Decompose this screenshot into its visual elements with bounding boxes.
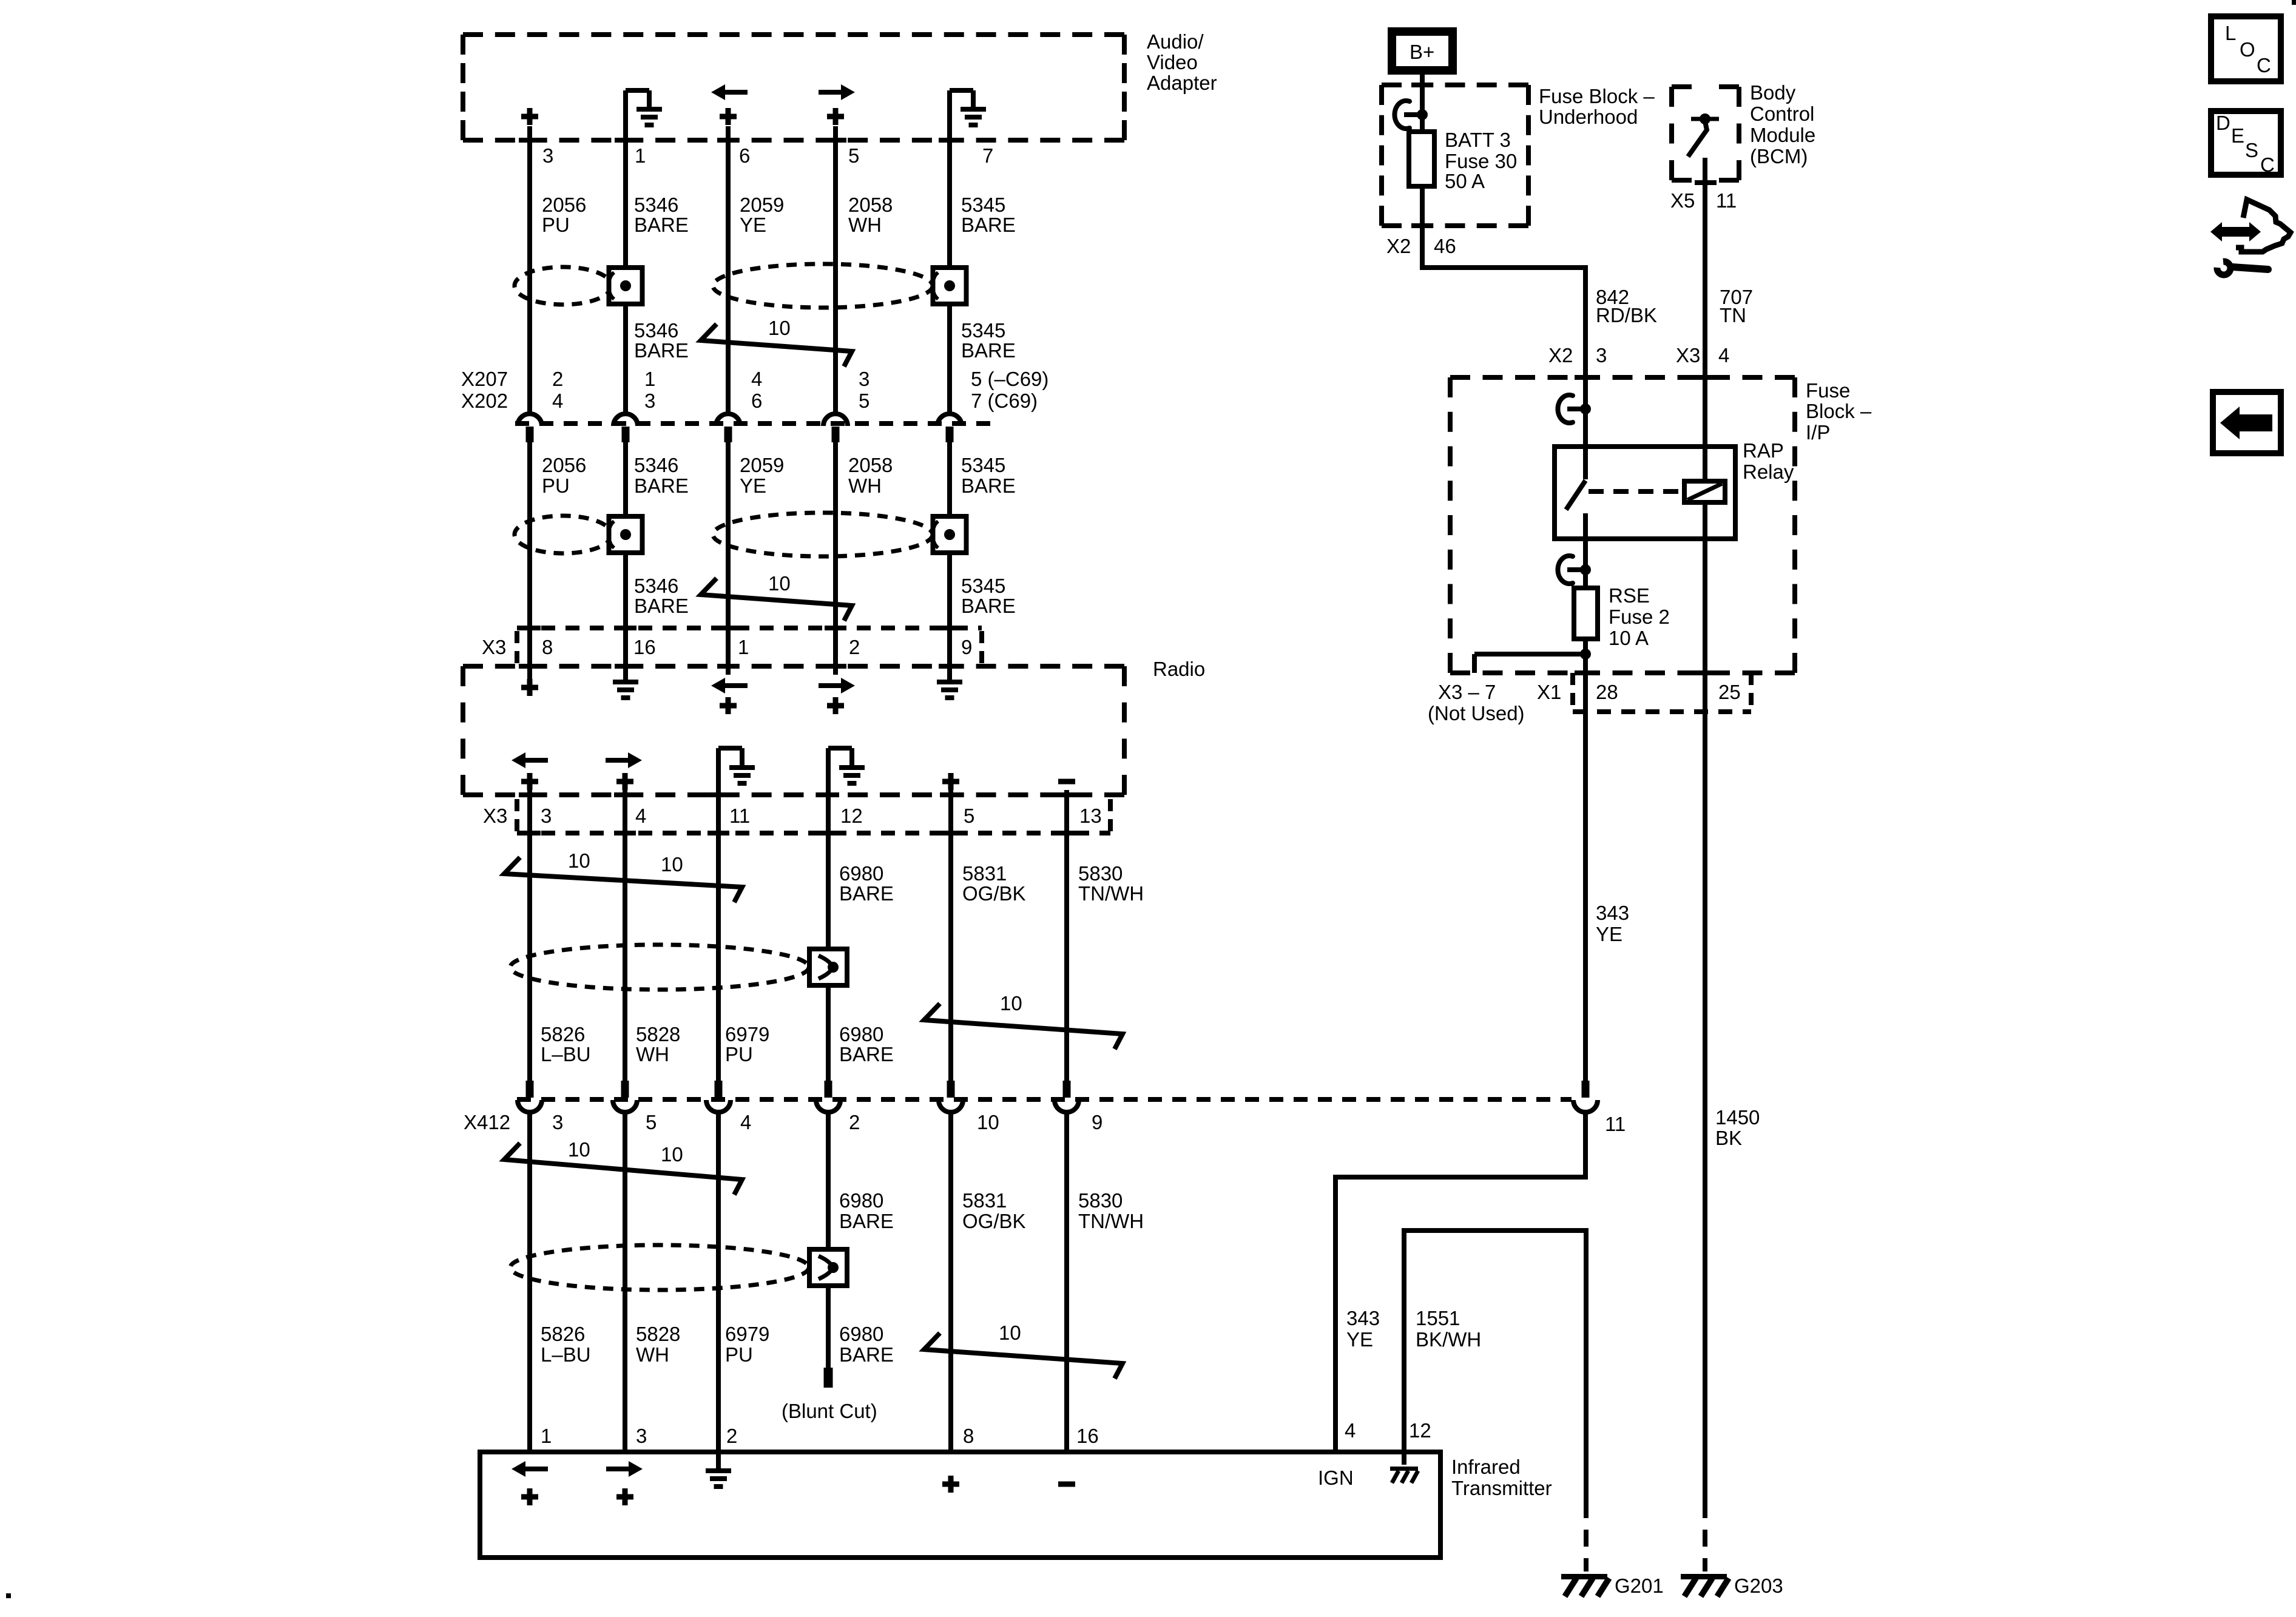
- svg-text:Radio: Radio: [1153, 658, 1205, 680]
- svg-text:TN: TN: [1720, 304, 1746, 326]
- svg-text:3: 3: [644, 390, 655, 412]
- svg-text:X5: X5: [1670, 189, 1695, 212]
- svg-text:6980: 6980: [839, 862, 883, 885]
- svg-text:7: 7: [982, 144, 993, 167]
- svg-text:50 A: 50 A: [1445, 170, 1485, 192]
- svg-text:10: 10: [568, 1138, 590, 1161]
- svg-text:6980: 6980: [839, 1023, 883, 1045]
- svg-text:X3: X3: [1676, 344, 1700, 366]
- svg-text:X1: X1: [1537, 681, 1561, 703]
- svg-text:10: 10: [999, 1322, 1021, 1344]
- svg-text:IGN: IGN: [1318, 1467, 1354, 1489]
- svg-text:10: 10: [1000, 992, 1022, 1014]
- svg-text:G203: G203: [1734, 1575, 1783, 1597]
- svg-text:6979: 6979: [725, 1023, 769, 1045]
- svg-text:5346: 5346: [634, 319, 678, 342]
- svg-text:5: 5: [964, 805, 974, 827]
- svg-text:Fuse 2: Fuse 2: [1609, 606, 1670, 628]
- svg-text:BARE: BARE: [634, 214, 689, 236]
- svg-text:3: 3: [859, 368, 869, 390]
- svg-text:7 (C69): 7 (C69): [971, 390, 1038, 412]
- svg-text:D: D: [2216, 112, 2230, 134]
- svg-text:1551: 1551: [1416, 1307, 1460, 1329]
- svg-text:2058: 2058: [848, 454, 893, 476]
- svg-text:Body: Body: [1750, 81, 1796, 104]
- svg-text:L: L: [2225, 22, 2236, 44]
- svg-text:10: 10: [568, 849, 590, 872]
- svg-text:WH: WH: [848, 214, 882, 236]
- svg-text:WH: WH: [848, 474, 882, 497]
- svg-text:WH: WH: [636, 1043, 669, 1065]
- svg-text:5345: 5345: [961, 575, 1005, 597]
- svg-text:10: 10: [768, 572, 791, 595]
- svg-text:PU: PU: [542, 474, 570, 497]
- svg-text:5828: 5828: [636, 1023, 680, 1045]
- svg-text:OG/BK: OG/BK: [962, 882, 1026, 905]
- svg-text:Fuse: Fuse: [1806, 379, 1850, 402]
- svg-text:BARE: BARE: [839, 1343, 894, 1366]
- svg-text:8: 8: [963, 1425, 974, 1447]
- svg-text:BK/WH: BK/WH: [1416, 1328, 1481, 1351]
- svg-text:2058: 2058: [848, 194, 893, 216]
- svg-text:BARE: BARE: [961, 474, 1016, 497]
- svg-text:5346: 5346: [634, 454, 678, 476]
- svg-text:10: 10: [977, 1111, 999, 1133]
- svg-text:4: 4: [552, 390, 563, 412]
- svg-text:46: 46: [1434, 235, 1456, 257]
- svg-text:YE: YE: [740, 214, 766, 236]
- svg-text:3: 3: [542, 144, 553, 167]
- svg-text:2056: 2056: [542, 454, 586, 476]
- svg-text:25: 25: [1718, 681, 1741, 703]
- svg-text:RD/BK: RD/BK: [1596, 304, 1657, 326]
- svg-text:BK: BK: [1715, 1127, 1742, 1149]
- svg-text:RAP: RAP: [1743, 439, 1784, 462]
- svg-text:6: 6: [751, 390, 762, 412]
- svg-text:2059: 2059: [740, 454, 784, 476]
- svg-text:L–BU: L–BU: [541, 1043, 591, 1065]
- svg-text:L–BU: L–BU: [541, 1343, 591, 1366]
- svg-text:G201: G201: [1615, 1575, 1664, 1597]
- svg-text:X412: X412: [464, 1111, 510, 1133]
- svg-text:11: 11: [729, 805, 750, 827]
- svg-text:Fuse Block –: Fuse Block –: [1539, 85, 1655, 107]
- svg-text:1: 1: [541, 1425, 552, 1447]
- svg-text:343: 343: [1596, 902, 1629, 924]
- svg-text:3: 3: [552, 1111, 563, 1133]
- svg-text:3: 3: [636, 1425, 647, 1447]
- svg-text:5: 5: [848, 144, 859, 167]
- svg-text:5346: 5346: [634, 575, 678, 597]
- svg-text:10: 10: [768, 317, 791, 339]
- svg-text:2059: 2059: [740, 194, 784, 216]
- svg-text:BATT 3: BATT 3: [1445, 129, 1511, 151]
- svg-text:X3: X3: [483, 805, 507, 827]
- svg-text:5831: 5831: [962, 862, 1007, 885]
- svg-text:2056: 2056: [542, 194, 586, 216]
- svg-text:5: 5: [859, 390, 869, 412]
- svg-text:(Not Used): (Not Used): [1428, 702, 1525, 724]
- svg-text:5 (–C69): 5 (–C69): [971, 368, 1048, 390]
- svg-text:Underhood: Underhood: [1539, 106, 1638, 128]
- svg-text:1450: 1450: [1715, 1106, 1760, 1129]
- svg-text:YE: YE: [740, 474, 766, 497]
- svg-text:X207: X207: [461, 368, 508, 390]
- svg-text:9: 9: [961, 636, 972, 658]
- svg-text:5828: 5828: [636, 1323, 680, 1345]
- svg-text:6980: 6980: [839, 1189, 883, 1212]
- svg-text:Audio/: Audio/: [1147, 30, 1204, 53]
- svg-text:5826: 5826: [541, 1023, 585, 1045]
- svg-text:Relay: Relay: [1743, 461, 1794, 483]
- svg-text:Control: Control: [1750, 103, 1814, 125]
- svg-text:RSE: RSE: [1609, 584, 1650, 607]
- svg-text:4: 4: [751, 368, 762, 390]
- svg-text:2: 2: [726, 1425, 737, 1447]
- svg-text:28: 28: [1596, 681, 1618, 703]
- svg-text:11: 11: [1716, 189, 1737, 212]
- svg-text:1: 1: [644, 368, 655, 390]
- svg-text:5831: 5831: [962, 1189, 1007, 1212]
- svg-text:Adapter: Adapter: [1147, 72, 1217, 94]
- svg-text:B+: B+: [1410, 41, 1434, 63]
- svg-text:5830: 5830: [1078, 862, 1123, 885]
- svg-text:12: 12: [840, 805, 863, 827]
- svg-text:3: 3: [541, 805, 552, 827]
- svg-text:X3 – 7: X3 – 7: [1438, 681, 1496, 703]
- svg-text:TN/WH: TN/WH: [1078, 882, 1144, 905]
- svg-text:OG/BK: OG/BK: [962, 1210, 1026, 1232]
- svg-text:12: 12: [1409, 1419, 1431, 1442]
- svg-text:1: 1: [738, 636, 749, 658]
- svg-text:6: 6: [739, 144, 750, 167]
- svg-text:5: 5: [646, 1111, 657, 1133]
- svg-text:16: 16: [1076, 1425, 1099, 1447]
- svg-text:BARE: BARE: [839, 1210, 894, 1232]
- svg-text:11: 11: [1605, 1113, 1626, 1135]
- svg-text:2: 2: [552, 368, 563, 390]
- svg-text:4: 4: [740, 1111, 751, 1133]
- svg-text:X2: X2: [1548, 344, 1573, 366]
- svg-text:Infrared: Infrared: [1451, 1456, 1521, 1478]
- svg-text:PU: PU: [725, 1343, 753, 1366]
- svg-text:BARE: BARE: [961, 339, 1016, 362]
- svg-text:Fuse 30: Fuse 30: [1445, 150, 1517, 172]
- svg-text:PU: PU: [542, 214, 570, 236]
- svg-text:E: E: [2231, 124, 2244, 147]
- svg-text:BARE: BARE: [839, 882, 894, 905]
- svg-text:X202: X202: [461, 390, 508, 412]
- svg-text:S: S: [2245, 139, 2258, 161]
- svg-text:5826: 5826: [541, 1323, 585, 1345]
- svg-text:10: 10: [661, 853, 683, 876]
- svg-text:C: C: [2257, 54, 2271, 76]
- svg-text:343: 343: [1346, 1307, 1380, 1329]
- svg-text:O: O: [2240, 38, 2255, 61]
- svg-text:4: 4: [635, 805, 646, 827]
- svg-text:X2: X2: [1386, 235, 1411, 257]
- svg-text:BARE: BARE: [634, 595, 689, 617]
- svg-text:5345: 5345: [961, 454, 1005, 476]
- svg-text:4: 4: [1718, 344, 1729, 366]
- svg-text:5345: 5345: [961, 319, 1005, 342]
- svg-text:Video: Video: [1147, 51, 1198, 73]
- svg-text:16: 16: [633, 636, 656, 658]
- svg-text:Block –: Block –: [1806, 400, 1872, 422]
- svg-text:(BCM): (BCM): [1750, 145, 1808, 167]
- svg-text:BARE: BARE: [634, 339, 689, 362]
- svg-text:TN/WH: TN/WH: [1078, 1210, 1144, 1232]
- svg-text:1: 1: [635, 144, 646, 167]
- svg-text:PU: PU: [725, 1043, 753, 1065]
- svg-text:2: 2: [849, 636, 860, 658]
- svg-text:C: C: [2260, 154, 2275, 176]
- svg-text:6980: 6980: [839, 1323, 883, 1345]
- svg-text:WH: WH: [636, 1343, 669, 1366]
- svg-text:BARE: BARE: [961, 214, 1016, 236]
- svg-text:Transmitter: Transmitter: [1451, 1477, 1552, 1499]
- svg-text:10: 10: [661, 1143, 683, 1166]
- svg-text:6979: 6979: [725, 1323, 769, 1345]
- svg-text:5830: 5830: [1078, 1189, 1123, 1212]
- svg-text:9: 9: [1092, 1111, 1102, 1133]
- svg-text:YE: YE: [1346, 1328, 1373, 1351]
- svg-text:BARE: BARE: [961, 595, 1016, 617]
- svg-text:Module: Module: [1750, 124, 1815, 146]
- svg-text:10 A: 10 A: [1609, 627, 1649, 649]
- svg-text:2: 2: [849, 1111, 860, 1133]
- svg-text:BARE: BARE: [839, 1043, 894, 1065]
- svg-text:BARE: BARE: [634, 474, 689, 497]
- svg-text:3: 3: [1596, 344, 1607, 366]
- svg-text:8: 8: [542, 636, 553, 658]
- svg-text:(Blunt Cut): (Blunt Cut): [782, 1400, 877, 1422]
- svg-text:I/P: I/P: [1806, 421, 1830, 444]
- svg-text:5345: 5345: [961, 194, 1005, 216]
- svg-text:13: 13: [1079, 805, 1102, 827]
- svg-text:YE: YE: [1596, 923, 1622, 945]
- svg-text:X3: X3: [482, 636, 506, 658]
- svg-text:5346: 5346: [634, 194, 678, 216]
- svg-text:4: 4: [1345, 1419, 1356, 1442]
